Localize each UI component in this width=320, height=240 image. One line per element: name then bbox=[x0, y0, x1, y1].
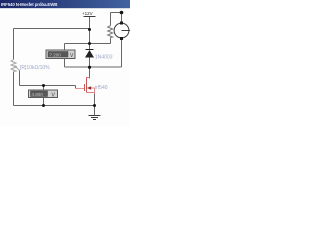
Q1 source elbow bbox=[87, 93, 95, 95]
wire voltmeter U2 bottom lead bbox=[43, 98, 45, 106]
wire voltmeter U1 branch horizontal bbox=[65, 43, 111, 45]
wire pot wiper lead bbox=[19, 71, 21, 86]
svg-text:7.200: 7.200 bbox=[50, 52, 62, 57]
wire +12V power drop bbox=[89, 17, 91, 29]
wire source to ground rail bbox=[94, 94, 96, 106]
junction node source / ground rail bbox=[93, 104, 96, 107]
title bar lower edge smear bbox=[0, 8, 130, 9]
wire load loop top bbox=[111, 12, 122, 14]
junction node U2 bottom / ground rail bbox=[42, 104, 45, 107]
Q1 gate pin bbox=[76, 88, 85, 90]
junction node drain net bbox=[88, 66, 91, 69]
power +12V bar bbox=[84, 16, 96, 18]
wire voltmeter U1 bottom lead bbox=[64, 59, 66, 68]
wire motor bottom to drain node bbox=[121, 39, 123, 68]
svg-text:IRF540 N-Mosfet próba.EWB: IRF540 N-Mosfet próba.EWB bbox=[1, 2, 57, 7]
Q1 body tie bbox=[91, 88, 95, 93]
motor M1 circle bbox=[114, 23, 129, 38]
wire voltmeter U1 top lead bbox=[64, 44, 66, 51]
wire left rail lower (pot bottom lead) bbox=[13, 72, 15, 106]
Q1 channel bbox=[86, 78, 88, 93]
motor M1 shaft line bbox=[122, 30, 131, 32]
svg-text:[R]10kΩ/10%: [R]10kΩ/10% bbox=[20, 65, 50, 71]
motor M1 bottom terminal bbox=[120, 37, 123, 40]
wire load resistor bottom lead bbox=[110, 38, 112, 44]
window title bar bbox=[0, 0, 130, 8]
wire diode anode to drain node bbox=[89, 58, 91, 79]
svg-text:irf540: irf540 bbox=[95, 85, 108, 91]
ground symbol bbox=[89, 116, 101, 120]
Q1 body arrow bbox=[87, 86, 91, 90]
wire gate net horizontal bbox=[20, 85, 76, 87]
potentiometer R1 zigzag body bbox=[11, 60, 16, 72]
wire ground stem bbox=[94, 106, 96, 116]
svg-text:1N4003: 1N4003 bbox=[95, 55, 113, 61]
wire voltmeter U2 top lead bbox=[43, 86, 45, 91]
load resistor R2 zigzag bbox=[108, 26, 113, 38]
voltmeter U1 body bbox=[46, 50, 75, 59]
junction node load loop corner bbox=[120, 11, 124, 15]
junction node diode cathode / U1 branch bbox=[88, 42, 91, 45]
svg-text:+12V: +12V bbox=[82, 11, 93, 16]
wire top supply rail bbox=[14, 28, 90, 30]
wire motor top lead bbox=[121, 13, 123, 24]
wire bottom ground rail bbox=[14, 105, 95, 107]
wire supply node vertical to diode cathode bbox=[89, 29, 91, 50]
svg-text:4.800: 4.800 bbox=[32, 92, 44, 97]
junction node gate / U2 bbox=[42, 84, 45, 87]
diode D1 cathode bar bbox=[86, 49, 94, 51]
wire load resistor top lead bbox=[110, 13, 112, 26]
Q1 drain elbow bbox=[87, 78, 90, 79]
motor M1 top terminal bbox=[120, 22, 123, 25]
wire left rail upper (pot top lead) bbox=[13, 29, 15, 60]
wire gate net step down bbox=[75, 86, 77, 89]
transistor Q1 IRF540 (selected, red) bbox=[76, 78, 95, 95]
potentiometer R1 wiper arrow bbox=[14, 65, 20, 71]
diode D1 triangle bbox=[85, 50, 94, 58]
Q1 gate plate bbox=[84, 84, 86, 91]
wire drain net horizontal bbox=[65, 66, 122, 68]
voltmeter U2 body bbox=[29, 90, 58, 98]
junction node supply/power bbox=[88, 28, 91, 31]
